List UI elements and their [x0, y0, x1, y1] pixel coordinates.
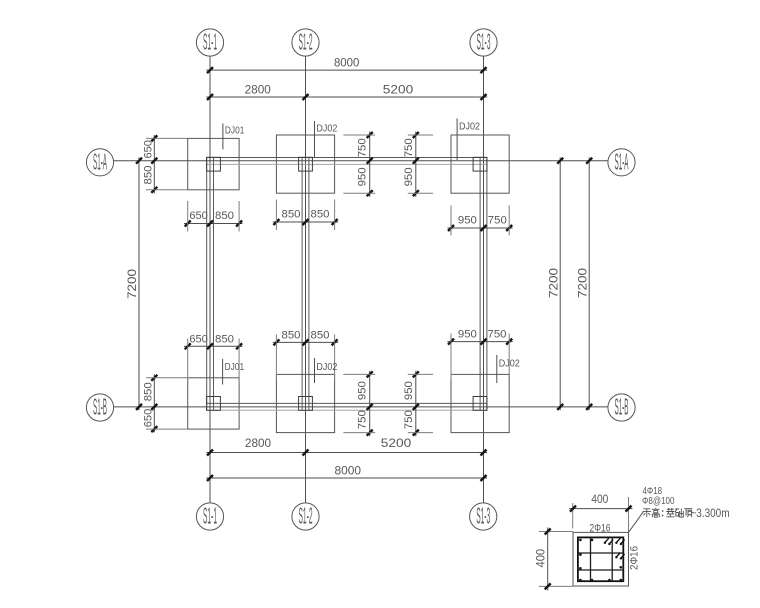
svg-text:S1-A: S1-A [93, 148, 107, 174]
dimension 2800 bottom [206, 436, 487, 455]
foundation pad DJ01 bottom-left [188, 378, 239, 429]
column at A-3 [473, 157, 487, 171]
dimension 650/850 above pad B1 [184, 334, 243, 385]
svg-text:950: 950 [403, 167, 415, 186]
axis bubble S1-3 top [470, 29, 497, 57]
grid axis line S1-A (horizontal) [114, 160, 608, 162]
svg-text:850: 850 [143, 166, 155, 185]
svg-text:750: 750 [357, 138, 369, 157]
svg-text:Φ8@100: Φ8@100 [642, 495, 675, 507]
ground beam along axis A (bottom edge) [207, 163, 487, 165]
svg-text:5200: 5200 [383, 82, 414, 96]
svg-text:S1-B: S1-B [615, 394, 629, 420]
grid axis line S1-1 (vertical) [209, 56, 211, 503]
column at A-1 [207, 157, 221, 171]
svg-text:750: 750 [488, 214, 507, 226]
svg-text:5200: 5200 [381, 436, 412, 450]
svg-text:950: 950 [458, 328, 477, 340]
svg-text:2Φ16: 2Φ16 [590, 522, 611, 534]
svg-text:850: 850 [311, 209, 330, 221]
stirrup hook top-center [604, 538, 614, 545]
svg-text:DJ02: DJ02 [316, 123, 337, 134]
svg-text:750: 750 [357, 410, 369, 429]
leader line to annotation [629, 512, 644, 533]
column at A-2 [299, 157, 313, 171]
axis bubble S1-A left [86, 148, 113, 176]
svg-text:DJ01: DJ01 [225, 362, 245, 373]
ground beam along axis B (bottom edge) [207, 409, 487, 411]
ground beam along axis 2 (left edge) [301, 157, 303, 410]
ground beam along axis 3 (right edge) [486, 157, 488, 410]
foundation pad DJ02 bottom-middle [276, 374, 334, 432]
svg-text:7200: 7200 [575, 268, 589, 298]
column section detail: stirrup (thick) [578, 537, 623, 581]
column section detail: inner tie horizontal 2 [578, 569, 623, 571]
svg-text:S1-2: S1-2 [299, 503, 313, 529]
svg-text:7200: 7200 [546, 268, 560, 298]
dimension 8000 top [206, 55, 487, 73]
axis bubble S1-1 bottom [196, 503, 223, 531]
CJK 基 [666, 508, 674, 517]
ground beam along axis 3 (left edge) [479, 157, 481, 410]
CJK 高 [652, 508, 660, 517]
ground beam along axis B (top edge) [207, 402, 487, 404]
dimension 7200 right inner [546, 157, 563, 410]
svg-text:2800: 2800 [245, 436, 272, 450]
axis bubble S1-B right [608, 394, 635, 422]
foundation pad DJ01 top-left [188, 138, 239, 189]
column at B-2 [299, 397, 313, 411]
grid axis line S1-2 (vertical) [305, 56, 307, 503]
column at B-1 [207, 397, 221, 411]
dimension 950/750 left of pad B3 [403, 371, 433, 436]
stirrup hook right-middle [615, 553, 624, 560]
svg-text:S1-1: S1-1 [203, 29, 217, 55]
svg-text:850: 850 [215, 210, 234, 222]
svg-text:S1-A: S1-A [615, 148, 629, 174]
dimension 650/850 left top chain [143, 135, 188, 193]
dimension 750/950 left of pad A3 [403, 132, 433, 197]
svg-text:850: 850 [311, 329, 330, 341]
svg-text:8000: 8000 [335, 464, 362, 478]
svg-text:850: 850 [215, 334, 234, 346]
svg-text:S1-3: S1-3 [477, 29, 491, 55]
svg-text:750: 750 [403, 410, 415, 429]
label DJ02 pad B3 with leader [497, 355, 520, 383]
svg-text:650: 650 [189, 210, 208, 222]
svg-text:950: 950 [357, 167, 369, 186]
svg-text:~3.300m: ~3.300m [691, 506, 730, 520]
svg-text:850: 850 [282, 209, 301, 221]
svg-text:8000: 8000 [334, 55, 360, 69]
svg-text:2Φ16: 2Φ16 [629, 546, 641, 570]
label DJ02 pad B2 with leader [315, 358, 338, 383]
dimension 650/850 below pad A1 [184, 201, 243, 232]
axis bubble S1-1 top [196, 29, 223, 57]
grid axis line S1-3 (vertical) [483, 56, 485, 503]
column section detail: inner tie vertical 2 [611, 537, 613, 581]
label DJ02 pad A2 with leader [315, 121, 338, 158]
label DJ01 pad B1 with leader [223, 359, 245, 385]
dimension 7200 right outer [575, 157, 592, 410]
svg-text:2800: 2800 [245, 82, 272, 96]
stirrup hook top-right [615, 538, 624, 545]
svg-text:650: 650 [143, 140, 155, 159]
dimension 2800 top [206, 82, 487, 100]
CJK fullwidth colon [662, 510, 664, 516]
axis bubble S1-3 bottom [470, 503, 497, 531]
annotation level text (CJK strokes) 标 [643, 508, 693, 517]
svg-text:7200: 7200 [125, 269, 139, 299]
column at B-3 [473, 397, 487, 411]
foundation pad DJ02 bottom-right [451, 374, 509, 432]
svg-text:DJ01: DJ01 [225, 125, 245, 136]
dimension 950/750 below pad A3 [447, 206, 512, 236]
svg-text:S1-1: S1-1 [203, 503, 217, 529]
column section detail: outer concrete outline [573, 532, 629, 586]
svg-text:850: 850 [282, 329, 301, 341]
axis bubble S1-2 top [292, 29, 319, 57]
rebar dots [579, 539, 622, 582]
svg-text:DJ02: DJ02 [316, 362, 337, 373]
svg-text:400: 400 [591, 492, 608, 506]
svg-text:850: 850 [143, 382, 155, 401]
dimension 950/750 right of pad B2 [343, 371, 375, 436]
ground beam along axis A (top edge) [207, 157, 487, 159]
foundation pad DJ02 top-right [451, 135, 509, 193]
dimension 750/950 right of pad A2 [343, 132, 375, 197]
ground beam along axis 1 (right edge) [213, 157, 215, 410]
svg-text:S1-2: S1-2 [299, 29, 313, 55]
dimension 8000 bottom [206, 464, 487, 481]
svg-text:750: 750 [403, 138, 415, 157]
dimension 950/750 above pad B3 [447, 328, 512, 379]
detail dimension 400 top [569, 492, 633, 532]
dimension 850/650 left bottom chain [143, 374, 188, 432]
dimension 7200 left [125, 157, 142, 410]
foundation pad DJ02 top-middle [276, 135, 334, 193]
dimension 850/850 above pad B2 [273, 329, 338, 380]
axis bubble S1-A right [608, 148, 635, 176]
svg-text:650: 650 [189, 334, 208, 346]
svg-text:DJ02: DJ02 [459, 121, 480, 132]
dimension 850/850 below pad A2 [273, 200, 338, 231]
svg-text:950: 950 [403, 381, 415, 400]
svg-text:400: 400 [533, 549, 547, 568]
ground beam along axis 1 (left edge) [206, 157, 208, 410]
axis bubble S1-B left [86, 394, 113, 422]
CJK 顶 [684, 509, 692, 517]
column section detail: inner tie horizontal 1 [578, 552, 623, 554]
CJK 础 [675, 509, 683, 518]
label DJ02 pad A3 with leader [457, 118, 480, 160]
svg-text:950: 950 [458, 214, 477, 226]
svg-text:DJ02: DJ02 [499, 359, 520, 370]
svg-text:950: 950 [357, 381, 369, 400]
svg-text:S1-3: S1-3 [476, 503, 490, 529]
axis bubble S1-2 bottom [292, 503, 319, 531]
column section detail: inner tie vertical 1 [590, 537, 592, 581]
svg-text:650: 650 [143, 409, 155, 428]
label DJ01 pad A1 with leader [223, 123, 245, 149]
detail dimension 400 left [533, 528, 573, 591]
svg-text:S1-B: S1-B [93, 394, 107, 420]
grid axis line S1-B (horizontal) [114, 406, 608, 408]
svg-text:750: 750 [488, 328, 507, 340]
ground beam along axis 2 (right edge) [308, 157, 310, 410]
